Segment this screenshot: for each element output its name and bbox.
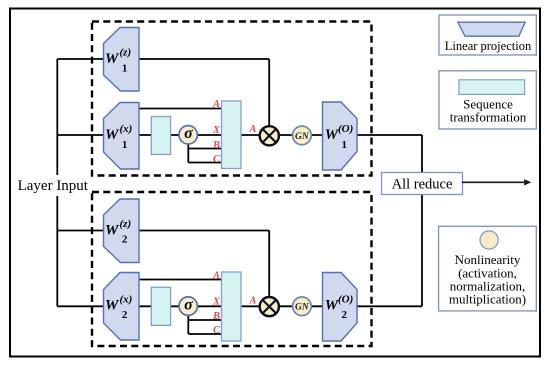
svg-text:C: C [213,325,221,336]
group norm GN 1 [293,126,312,145]
group norm GN 2 [293,297,312,316]
svg-text:All reduce: All reduce [392,177,453,193]
svg-text:multiplication): multiplication) [449,291,526,306]
wire z2 horizontal [57,230,269,232]
svg-text:W: W [105,127,120,143]
svg-text:A: A [248,296,256,307]
linear projection W1x [104,103,140,170]
wire trunk vertical lower [56,196,58,306]
label W1z [105,47,131,75]
svg-text:(O): (O) [338,123,353,135]
svg-text:C: C [213,154,221,165]
wire all-reduce up from unit2 [421,195,423,307]
label W2O [325,293,354,321]
all reduce box [382,173,463,195]
svg-text:(x): (x) [120,293,133,305]
label W2z [105,218,131,246]
dashed box unit1 [92,22,372,176]
svg-text:W: W [105,51,120,67]
wire z1 vertical into multiplier [268,59,270,130]
wire z2 vertical into multiplier [268,231,270,298]
legend box sequence transformation [439,71,536,129]
sequence transformation rect 2 [151,287,170,325]
nonlinearity sigma 2 [179,297,197,315]
arrow head [524,179,531,185]
linear projection W2x [104,273,140,341]
svg-text:Layer Input: Layer Input [18,178,89,194]
svg-text:transformation: transformation [450,110,527,125]
svg-text:GN: GN [295,303,310,313]
svg-text:1: 1 [341,139,347,151]
multiplier circle 1 [260,126,279,145]
dashed box unit2 [92,192,372,346]
sequence transformation tall rect 1 [222,101,242,169]
svg-text:1: 1 [122,63,128,75]
wire trunk vertical upper (Layer Input) [56,59,58,175]
svg-text:(z): (z) [120,47,132,59]
sequence transformation rect 1 [151,117,170,155]
wire B1 horizontal [188,148,221,150]
linear projection W2z [104,199,140,263]
svg-text:σ: σ [184,125,193,142]
linear projection W1O [323,102,358,170]
linear projection W1z [104,28,140,92]
label W1x [105,123,132,151]
wire B2 horizontal [188,319,221,321]
svg-text:X: X [212,125,221,136]
linear projection W2O [323,273,358,342]
svg-text:A: A [212,271,220,282]
label W2x [105,293,132,321]
multiplier cross 1 [263,129,276,142]
svg-text:A: A [212,99,220,110]
svg-text:GN: GN [295,132,310,142]
wire arrow out [462,181,526,183]
sequence transformation tall rect 2 [222,272,242,341]
legend circle [480,231,498,249]
svg-text:W: W [105,222,120,238]
wire x2 main horizontal [57,305,422,307]
wire x1 main horizontal [57,134,422,136]
wire all-reduce down from unit1 [421,135,423,173]
wire C2 horizontal [188,333,221,335]
wire sigma2 branch vertical [187,306,189,334]
svg-text:W: W [105,297,120,313]
legend cyan rect [459,80,525,95]
svg-text:(O): (O) [338,293,353,305]
svg-text:B: B [212,140,220,151]
wire sigma1 branch vertical [187,135,189,163]
svg-text:2: 2 [122,234,128,246]
legend box nonlinearity [439,226,537,311]
svg-text:B: B [212,311,220,322]
svg-text:Linear projection: Linear projection [445,39,532,53]
nonlinearity sigma 1 [179,126,197,144]
svg-text:X: X [212,297,221,308]
svg-text:(x): (x) [120,123,133,135]
multiplier cross 2 [263,300,276,313]
svg-text:σ: σ [184,296,193,313]
label W1O [325,123,354,151]
multiplier circle 2 [260,297,279,316]
wire C1 horizontal [188,162,221,164]
svg-text:A: A [248,124,256,135]
legend box linear projection [439,15,536,55]
svg-text:(z): (z) [120,218,132,230]
svg-text:2: 2 [341,309,347,321]
legend trapezoid [458,22,525,36]
wire A1 horizontal [139,108,222,110]
wire A2 horizontal [139,279,222,281]
wire z1 horizontal [57,58,269,60]
svg-text:2: 2 [122,309,128,321]
svg-text:1: 1 [122,139,128,151]
